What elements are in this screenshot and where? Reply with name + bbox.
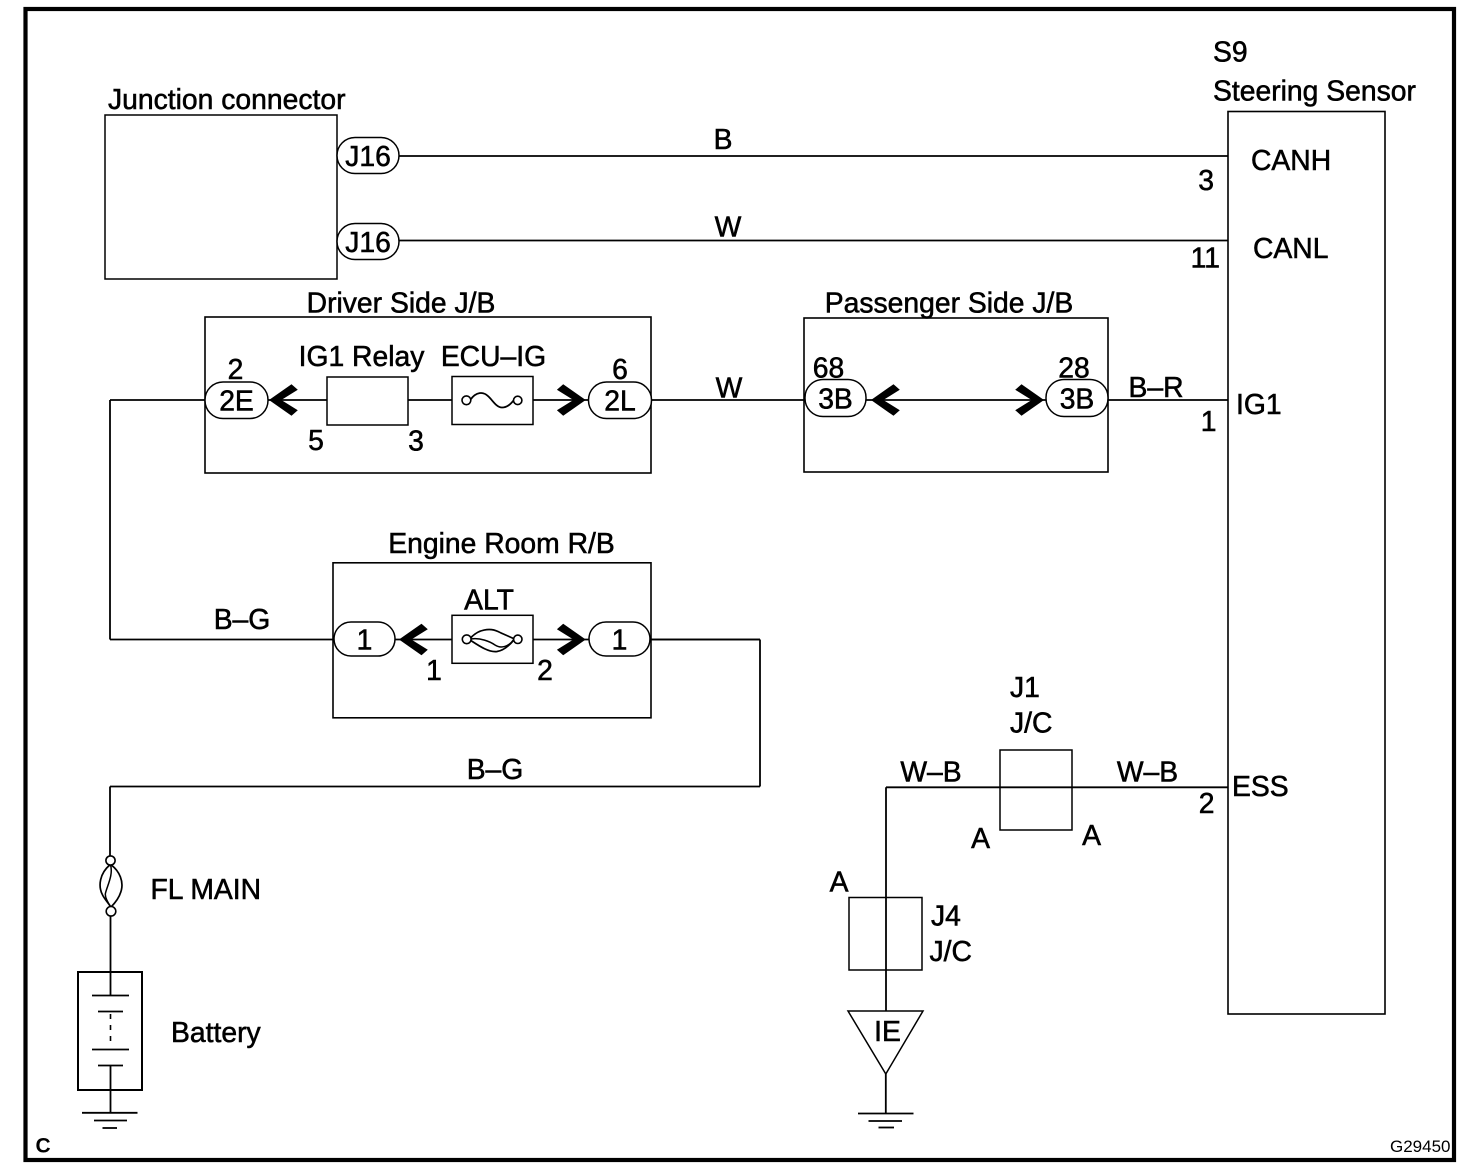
connector arrow into 2E [269, 384, 298, 416]
wire W-B from corner to S9 pin 2 [886, 786, 1228, 788]
svg-text:2E: 2E [219, 385, 254, 417]
wire IE to ground [885, 1074, 887, 1113]
svg-text:3B: 3B [818, 383, 853, 415]
svg-text:A: A [830, 866, 849, 898]
wire vertical x=760 [759, 640, 761, 787]
svg-text:6: 6 [612, 353, 628, 385]
connector 2E [205, 382, 268, 419]
S9 pin name IG1 [1236, 388, 1282, 420]
junction connector box [105, 83, 346, 279]
wire label W-B right [1117, 756, 1178, 788]
svg-text:J16: J16 [345, 140, 391, 172]
J4 pin A [830, 866, 849, 898]
connector arrow into 3B left [871, 384, 900, 416]
svg-text:Engine Room R/B: Engine Room R/B [388, 527, 615, 559]
wire vertical feed left (2E to B-G) [109, 400, 111, 640]
wire vertical x=886 to J4 [885, 787, 887, 1011]
ground (IE) [858, 1114, 914, 1128]
Driver Side J/B box [205, 287, 651, 474]
connector arrow into 1 left [399, 624, 428, 656]
svg-text:2L: 2L [604, 385, 635, 417]
svg-text:1: 1 [357, 624, 373, 656]
IG1 Relay pin 5 [308, 424, 324, 456]
wire B-G lower horizontal [110, 786, 760, 788]
wire FL MAIN to battery [110, 916, 112, 995]
svg-text:J1: J1 [1010, 671, 1040, 703]
svg-text:IG1: IG1 [1236, 388, 1282, 420]
svg-text:C: C [36, 1135, 51, 1158]
svg-text:1: 1 [426, 654, 442, 686]
connector 3B (right) [1046, 380, 1108, 417]
J1 pin A left [971, 822, 990, 854]
svg-text:Passenger Side J/B: Passenger Side J/B [825, 287, 1074, 319]
connector 1 (right) [589, 622, 650, 656]
svg-text:ALT: ALT [464, 584, 514, 616]
S9 pin name CANL [1253, 232, 1328, 264]
svg-text:W: W [715, 211, 742, 243]
wire label W-B left [900, 756, 961, 788]
svg-text:Driver Side J/B: Driver Side J/B [307, 287, 496, 319]
wire IG1 row: from vertical feed to S9 pin 1 [110, 399, 1228, 401]
connector 3B pin 28 label [1058, 352, 1089, 384]
connector 2L [589, 382, 652, 419]
S9 pin 11 [1191, 242, 1220, 274]
svg-text:CANH: CANH [1251, 144, 1331, 176]
IG1 Relay pin 3 [408, 425, 424, 457]
junction J4 J/C box [849, 898, 972, 971]
svg-text:2: 2 [537, 654, 553, 686]
svg-text:Steering Sensor: Steering Sensor [1213, 75, 1416, 107]
wire label B-G upper [214, 603, 271, 635]
svg-text:68: 68 [813, 352, 844, 384]
wire label W [715, 211, 742, 243]
connector arrow into 1 right [557, 624, 586, 656]
wire from 1 right to corner [650, 639, 760, 641]
S9 pin 3 [1198, 164, 1214, 196]
ground triangle IE [848, 1011, 923, 1074]
wire label W (2L to 3B) [716, 372, 743, 404]
battery [78, 972, 261, 1113]
svg-text:B–R: B–R [1128, 371, 1183, 403]
connector 3B pin 68 label [813, 352, 844, 384]
junction J1 J/C box [1000, 671, 1072, 830]
svg-text:IE: IE [874, 1015, 901, 1047]
svg-text:J/C: J/C [1010, 707, 1052, 739]
svg-text:3: 3 [1198, 164, 1214, 196]
fuse ECU-IG [441, 340, 546, 425]
fuse ALT [452, 584, 533, 664]
svg-text:Junction connector: Junction connector [108, 83, 346, 115]
wire B-G upper (to Engine Room R/B) [110, 639, 760, 641]
fusible link FL MAIN [100, 856, 261, 916]
connector 2E pin 2 label [228, 353, 244, 385]
svg-text:S9: S9 [1213, 36, 1248, 68]
Passenger Side J/B box [804, 287, 1108, 473]
connector J16 (W wire) [337, 224, 399, 260]
svg-text:ECU–IG: ECU–IG [441, 340, 546, 372]
svg-text:3: 3 [408, 425, 424, 457]
svg-text:2: 2 [228, 353, 244, 385]
svg-text:3B: 3B [1060, 383, 1095, 415]
svg-text:28: 28 [1058, 352, 1089, 384]
wire W (CANL) from J16 to S9 pin 11 [399, 240, 1228, 242]
page letter C [36, 1135, 51, 1158]
J1 pin A right [1082, 819, 1101, 851]
connector arrow into 3B right [1015, 384, 1044, 416]
S9 pin name CANH [1251, 144, 1331, 176]
relay IG1 Relay [299, 340, 426, 425]
svg-text:J/C: J/C [930, 935, 972, 967]
connector 2L pin 6 label [612, 353, 628, 385]
svg-text:1: 1 [612, 624, 628, 656]
svg-text:ESS: ESS [1232, 770, 1289, 802]
wire label B-G lower [467, 753, 524, 785]
svg-text:G29450: G29450 [1390, 1137, 1451, 1156]
svg-text:W: W [716, 372, 743, 404]
component S9 Steering Sensor box [1213, 36, 1416, 1015]
svg-text:11: 11 [1191, 242, 1220, 274]
wire label B-R [1128, 371, 1183, 403]
figure number G29450 [1390, 1137, 1451, 1156]
ground (battery) [82, 1113, 138, 1128]
svg-text:W–B: W–B [900, 756, 961, 788]
svg-text:2: 2 [1199, 787, 1215, 819]
connector 1 (left) [334, 622, 395, 656]
svg-text:A: A [971, 822, 990, 854]
svg-text:B–G: B–G [467, 753, 524, 785]
svg-text:CANL: CANL [1253, 232, 1328, 264]
svg-text:Battery: Battery [171, 1016, 261, 1048]
svg-text:IG1 Relay: IG1 Relay [299, 340, 426, 372]
svg-text:FL MAIN: FL MAIN [151, 873, 262, 905]
svg-text:1: 1 [1201, 405, 1217, 437]
connector J16 (B wire) [337, 138, 399, 174]
connector arrow into 2L [557, 384, 586, 416]
wire B (CANH) from J16 to S9 pin 3 [399, 155, 1228, 157]
S9 pin 2 [1199, 787, 1215, 819]
svg-text:J16: J16 [345, 226, 391, 258]
S9 pin name ESS [1232, 770, 1289, 802]
connector 3B (left) [805, 380, 866, 417]
wire label B [714, 123, 733, 155]
svg-text:A: A [1082, 819, 1101, 851]
S9 pin 1 [1201, 405, 1217, 437]
svg-text:B–G: B–G [214, 603, 271, 635]
svg-text:B: B [714, 123, 733, 155]
Engine Room R/B box [333, 527, 651, 718]
wire vertical to FL MAIN [109, 787, 111, 857]
svg-text:J4: J4 [931, 900, 961, 932]
ALT pin 2 [537, 654, 553, 686]
svg-text:5: 5 [308, 424, 324, 456]
svg-text:W–B: W–B [1117, 756, 1178, 788]
ALT pin 1 [426, 654, 442, 686]
